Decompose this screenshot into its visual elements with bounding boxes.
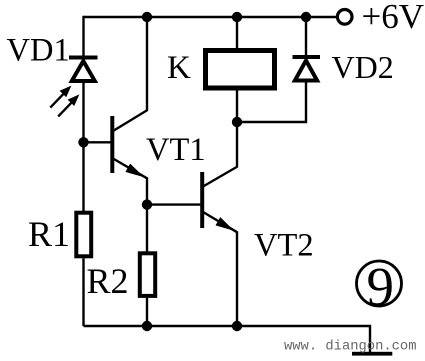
svg-text:K: K — [167, 50, 191, 86]
node bottom rail junction dot 2 — [232, 321, 242, 331]
svg-text:VT2: VT2 — [254, 227, 314, 263]
svg-text:VD2: VD2 — [332, 49, 394, 85]
svg-text:VT1: VT1 — [146, 132, 206, 168]
wire VT1 emitter vertical to node — [146, 177, 148, 204]
terminal +6V open circle — [337, 9, 352, 24]
resistor R1 — [76, 213, 91, 257]
wire left vertical upper (top rail to VD1 cathode) — [82, 16, 84, 57]
wire VD2 cathode to top rail — [305, 17, 307, 56]
node top rail junction dot 1 — [142, 12, 152, 22]
node bottom rail junction dot 1 — [142, 321, 152, 331]
diode VD2 — [293, 57, 321, 81]
light arrow 2 into VD1 — [58, 94, 79, 116]
transistor VT1 — [112, 110, 147, 178]
resistor R2 — [140, 253, 155, 296]
wire VT2 base lead — [147, 203, 200, 205]
svg-text:9: 9 — [367, 256, 395, 317]
svg-text:R1: R1 — [28, 214, 70, 254]
wire VT1 base lead — [84, 141, 111, 143]
node top rail junction dot 3 — [301, 12, 311, 22]
node base of VT1 junction dot — [78, 137, 88, 147]
wire top rail to relay top — [236, 17, 238, 48]
wire VT2 emitter vertical to bottom rail — [236, 231, 238, 326]
relay coil K — [206, 51, 275, 89]
figure number circle 9 — [357, 256, 402, 317]
wire R2 bottom to bottom rail — [146, 298, 148, 326]
node VT1 emitter / R2 / VT2 base junction dot — [142, 199, 152, 209]
wire left vertical mid (VD1 anode to R1) — [82, 82, 84, 213]
svg-text:R2: R2 — [87, 261, 129, 301]
wire left vertical lower (R1 to bottom rail) — [82, 258, 84, 326]
svg-text:+6V: +6V — [362, 0, 425, 36]
ground bar — [352, 352, 392, 356]
wire VT1 collector vertical to top rail — [146, 17, 148, 111]
wire bottom rail — [84, 326, 371, 352]
photodiode VD1 — [69, 58, 98, 82]
light arrow 1 into VD1 — [50, 86, 71, 108]
transistor VT2 — [202, 167, 237, 233]
svg-text:www. diangon.com: www. diangon.com — [284, 339, 416, 355]
svg-text:VD1: VD1 — [7, 33, 70, 69]
wire relay bottom to node — [236, 91, 238, 123]
wire top rail — [84, 16, 337, 18]
node relay bottom junction dot — [232, 117, 242, 127]
wire node to VD2 anode — [237, 81, 306, 122]
wire node to R2 top — [146, 205, 148, 253]
node top rail junction dot 2 — [232, 12, 242, 22]
wire VT2 collector vertical to relay node — [236, 122, 238, 167]
